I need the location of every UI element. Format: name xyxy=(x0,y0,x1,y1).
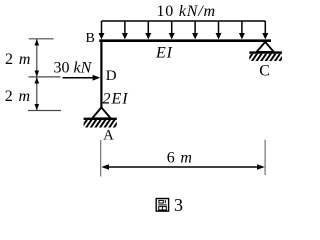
span dimension line 6 m xyxy=(101,164,264,169)
caption character 圖 xyxy=(156,199,168,212)
distributed load arrow 4 xyxy=(169,21,175,39)
dimension arrowhead up at top xyxy=(35,39,40,46)
svg-text:D: D xyxy=(106,68,117,84)
dimension tick bottom xyxy=(28,110,61,112)
distributed load arrow 7 xyxy=(239,21,245,39)
distributed load 10 kN/m : top line xyxy=(102,20,266,22)
svg-text:30 kN: 30 kN xyxy=(54,60,93,77)
force 30 kN arrow xyxy=(63,75,101,81)
svg-text:EI: EI xyxy=(155,44,173,61)
svg-text:B: B xyxy=(86,31,95,46)
dimension tick middle xyxy=(29,76,61,78)
span dimension extension line right xyxy=(264,140,266,175)
column AB (member 2EI) xyxy=(100,39,102,107)
svg-text:C: C xyxy=(259,62,270,79)
span dimension extension line left xyxy=(100,140,102,177)
svg-text:6 m: 6 m xyxy=(167,150,193,167)
support A base line xyxy=(84,118,117,120)
svg-text:10 kN/m: 10 kN/m xyxy=(157,3,216,20)
svg-text:2 m: 2 m xyxy=(5,51,31,68)
dimension tick top xyxy=(29,38,54,40)
vertical dimension line xyxy=(36,39,38,111)
svg-text:3: 3 xyxy=(174,195,183,215)
dimension arrowhead up from middle xyxy=(35,77,40,83)
distributed load arrow 1 xyxy=(99,21,105,39)
pin support at A : triangle xyxy=(92,107,110,118)
distributed load arrow 8 xyxy=(262,21,268,39)
dimension arrowhead down at bottom xyxy=(35,104,40,110)
beam BC (member EI) xyxy=(99,39,271,42)
svg-text:2 m: 2 m xyxy=(5,88,31,105)
distributed load arrow 2 xyxy=(122,21,128,39)
svg-text:A: A xyxy=(103,127,114,143)
support C base line xyxy=(249,51,282,53)
pin support at C : triangle xyxy=(257,42,274,52)
distributed load arrow 6 xyxy=(216,21,222,39)
svg-text:2EI: 2EI xyxy=(103,91,129,108)
distributed load arrow 5 xyxy=(192,21,198,39)
distributed load arrow 3 xyxy=(145,21,151,39)
dimension arrowhead down to middle xyxy=(35,71,40,77)
